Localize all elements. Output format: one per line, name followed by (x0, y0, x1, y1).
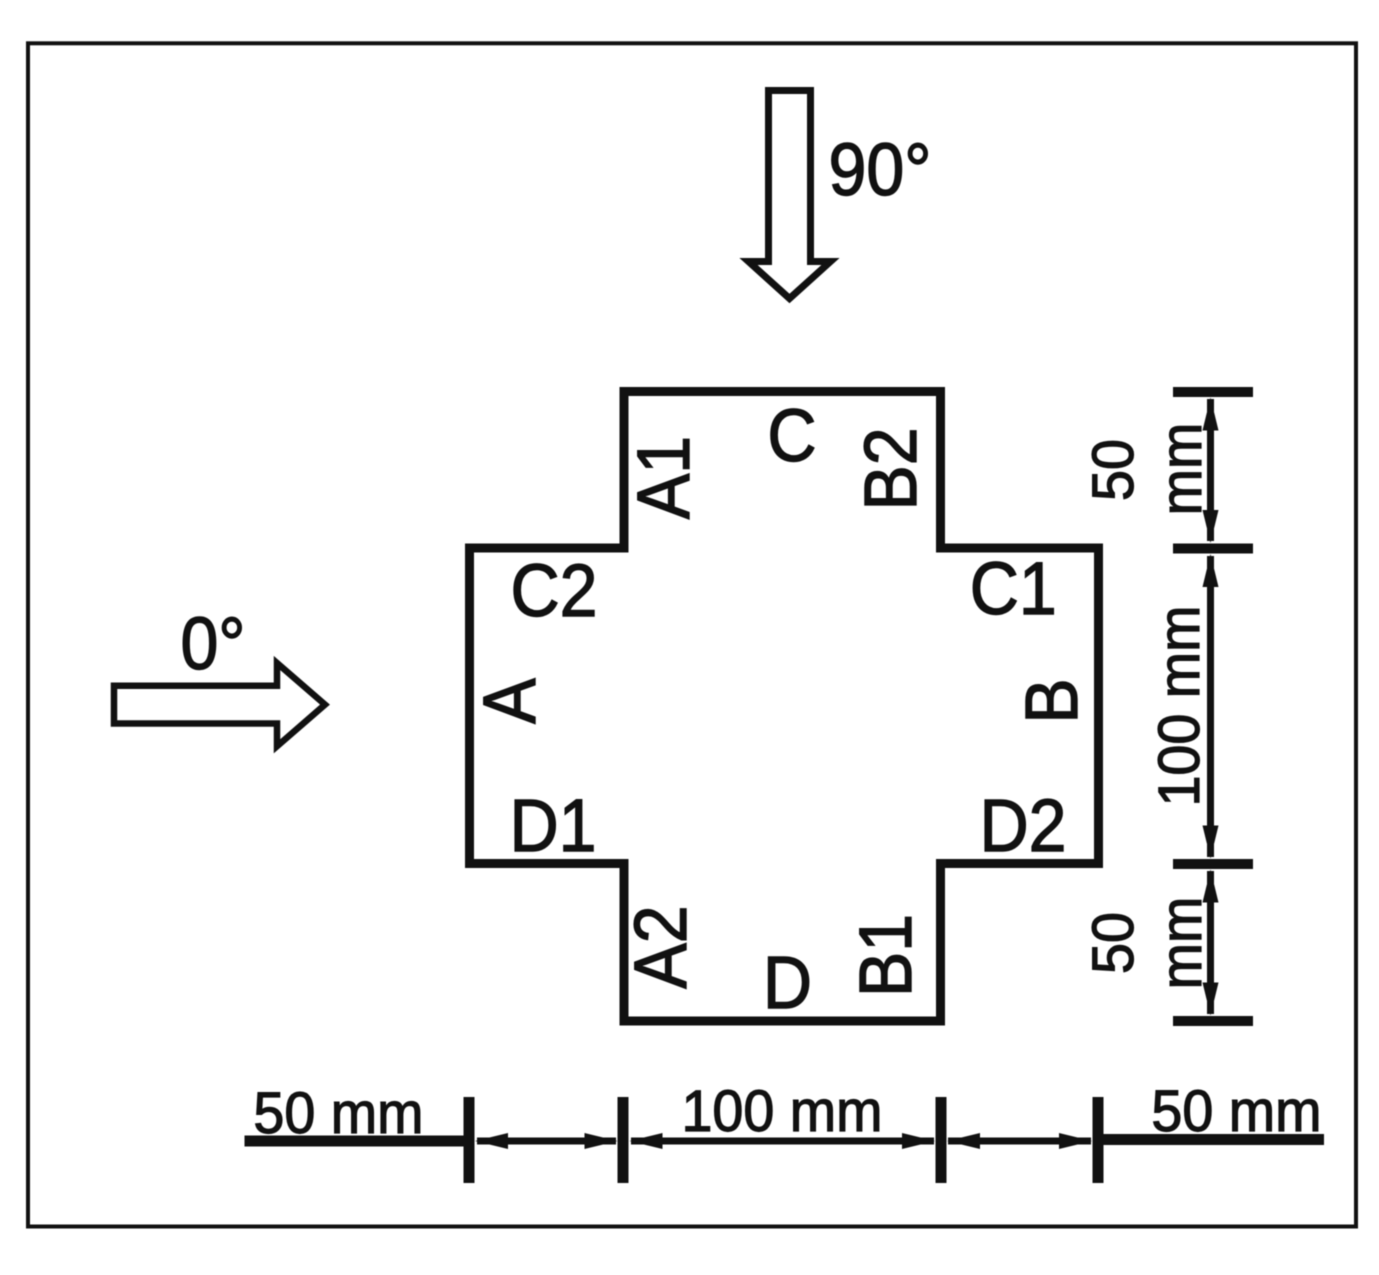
label mm right bottom (rotated) (1150, 897, 1214, 990)
svg-text:50: 50 (1082, 912, 1146, 974)
tick right B (1173, 544, 1253, 554)
tick right C (1173, 859, 1253, 869)
svg-text:100 mm: 100 mm (1148, 605, 1212, 806)
svg-text:B: B (1011, 678, 1093, 723)
dim arrow right 50mm top (1207, 399, 1214, 541)
label B2 (rotated) (850, 427, 932, 510)
svg-text:50: 50 (1082, 439, 1146, 501)
label A (rotated) (469, 678, 551, 724)
svg-text:50 mm: 50 mm (1151, 1080, 1321, 1144)
bottom dimension row (245, 1097, 1325, 1183)
tick right A (1173, 387, 1253, 397)
label A2 (rotated) (620, 905, 702, 988)
dim arrow bottom 100mm (631, 1138, 934, 1145)
arrow 90deg (down arrow) (749, 91, 831, 299)
svg-text:D2: D2 (979, 785, 1066, 867)
dim arrow right 50mm bottom (1207, 871, 1214, 1014)
svg-text:A2: A2 (620, 905, 702, 988)
right dimension column (1173, 392, 1253, 1021)
label mm right top (rotated) (1150, 423, 1214, 516)
label B1 (rotated) (845, 914, 927, 997)
svg-text:50 mm: 50 mm (253, 1082, 423, 1146)
label B (rotated) (1011, 678, 1093, 723)
tick bottom 2 (618, 1097, 629, 1183)
label A1 (rotated) (623, 436, 705, 519)
svg-text:90°: 90° (829, 129, 932, 211)
tick bottom 4 (1093, 1097, 1104, 1183)
tick bottom 1 (464, 1097, 475, 1183)
svg-text:0°: 0° (180, 603, 245, 685)
svg-text:A1: A1 (623, 436, 705, 519)
label 50 right bottom (rotated) (1082, 912, 1146, 974)
tick bottom 3 (936, 1097, 947, 1183)
arrow 0deg (right arrow) (114, 663, 325, 746)
svg-text:B2: B2 (850, 427, 932, 510)
svg-text:D1: D1 (509, 785, 596, 867)
svg-text:D: D (763, 942, 812, 1024)
label 100 mm right (rotated) (1148, 605, 1212, 806)
svg-text:C: C (767, 395, 816, 477)
leader line left (245, 1136, 470, 1147)
label 50 right top (rotated) (1082, 439, 1146, 501)
svg-text:100 mm: 100 mm (681, 1080, 882, 1144)
svg-text:B1: B1 (845, 914, 927, 997)
leader line right (1103, 1134, 1324, 1145)
cross section outline (470, 392, 1099, 1022)
dim arrow bottom right gap (948, 1138, 1091, 1145)
dim arrow right 100mm (1207, 556, 1214, 857)
svg-text:A: A (469, 678, 551, 724)
tick right D (1173, 1016, 1253, 1026)
svg-text:mm: mm (1150, 423, 1214, 516)
svg-text:C2: C2 (510, 550, 597, 632)
dim arrow bottom left gap (477, 1138, 616, 1145)
svg-text:C1: C1 (970, 548, 1057, 630)
svg-text:mm: mm (1150, 897, 1214, 990)
